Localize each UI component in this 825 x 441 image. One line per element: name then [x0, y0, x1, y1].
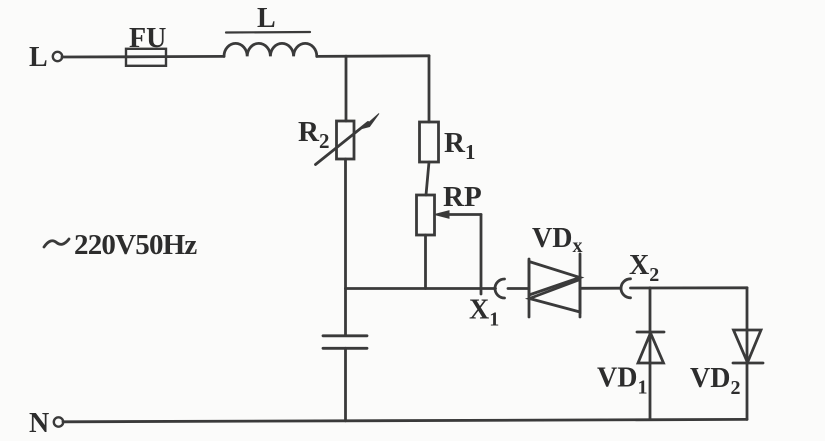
- capacitor bottom plate: [323, 347, 367, 350]
- svg-text:VDx: VDx: [532, 223, 582, 257]
- bottom rail wire N to VD2: [63, 419, 747, 421]
- node junction top of R2 branch: [345, 56, 348, 121]
- potentiometer RP: [417, 195, 435, 235]
- label source voltage: [44, 239, 69, 247]
- wire RP wiper down to mid rail: [480, 215, 483, 295]
- triac VDx left bar: [528, 259, 531, 317]
- svg-text:X1: X1: [469, 295, 499, 331]
- wire R1 to RP: [426, 162, 429, 195]
- wire inductor to R1 corner: [317, 54, 429, 57]
- wire mid rail down to capacitor: [344, 289, 347, 336]
- diode VD1 cathode bar: [637, 331, 664, 334]
- wire right corner down through VD2: [746, 288, 749, 420]
- wire L terminal to fuse: [62, 55, 126, 58]
- svg-text:R2: R2: [298, 116, 329, 153]
- diode VD1 triangle: [638, 333, 664, 363]
- svg-text:FU: FU: [129, 23, 166, 54]
- wire VD1 through lead: [649, 288, 652, 420]
- diode VD2 triangle: [734, 330, 762, 363]
- resistor R1: [420, 122, 439, 162]
- terminal N: [54, 417, 63, 426]
- inductor L overline: [226, 31, 310, 34]
- svg-text:N: N: [29, 408, 49, 439]
- wire RP bottom to mid rail: [424, 235, 427, 289]
- capacitor top plate: [323, 334, 367, 337]
- triac VDx upper triangle: [529, 262, 580, 296]
- wire X1 to triac: [508, 287, 529, 290]
- svg-text:L: L: [29, 42, 48, 73]
- wire R1 top lead: [428, 56, 431, 122]
- wire fuse to inductor: [166, 55, 224, 58]
- svg-text:VD1: VD1: [597, 363, 647, 399]
- connector X1: [495, 279, 505, 298]
- inductor L: [224, 43, 317, 56]
- wire capacitor to bottom rail: [344, 348, 347, 421]
- mid rail wire to connector X1: [346, 287, 496, 290]
- svg-text:RP: RP: [443, 181, 482, 213]
- wire X2 to right corner: [631, 286, 748, 289]
- wiper arrow of RP: [446, 213, 481, 216]
- svg-text:220V50Hz: 220V50Hz: [74, 229, 197, 261]
- fuse FU: [126, 55, 166, 58]
- connector X2: [621, 279, 631, 298]
- terminal L: [53, 52, 62, 61]
- svg-text:X2: X2: [629, 250, 659, 286]
- resistor R2: [337, 121, 355, 159]
- triac VDx lower triangle: [530, 280, 581, 313]
- svg-text:R1: R1: [444, 127, 475, 164]
- arrow of variable resistor R2: [316, 123, 369, 165]
- diode VD2 cathode bar: [733, 362, 763, 365]
- wire triac to X2: [580, 287, 620, 290]
- svg-text:VD2: VD2: [690, 363, 740, 399]
- triac VDx right bar: [579, 254, 582, 317]
- wire R2 bottom to mid rail: [344, 159, 347, 289]
- svg-text:L: L: [257, 3, 276, 34]
